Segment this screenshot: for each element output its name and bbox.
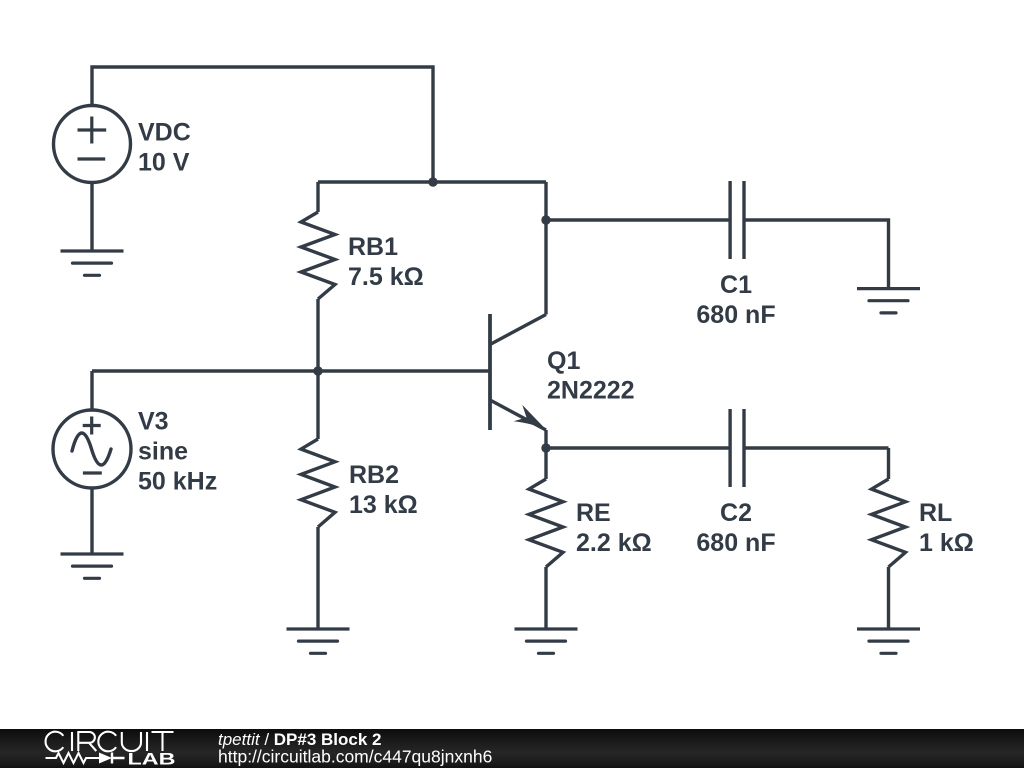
svg-text:V3: V3: [138, 408, 169, 436]
svg-text:RB2: RB2: [349, 461, 399, 489]
svg-text:VDC: VDC: [138, 119, 191, 147]
svg-text:680 nF: 680 nF: [696, 301, 775, 329]
svg-text:RE: RE: [576, 499, 611, 527]
svg-text:1 kΩ: 1 kΩ: [919, 529, 974, 557]
svg-text:2N2222: 2N2222: [547, 377, 635, 405]
svg-text:RL: RL: [919, 499, 952, 527]
svg-text:10 V: 10 V: [138, 149, 190, 177]
svg-text:LAB: LAB: [128, 750, 176, 768]
svg-text:2.2 kΩ: 2.2 kΩ: [576, 529, 652, 557]
svg-text:http://circuitlab.com/c447qu8j: http://circuitlab.com/c447qu8jnxnh6: [218, 747, 492, 767]
svg-text:RB1: RB1: [348, 233, 398, 261]
svg-text:13 kΩ: 13 kΩ: [349, 491, 418, 519]
svg-text:Q1: Q1: [547, 347, 580, 375]
svg-text:7.5 kΩ: 7.5 kΩ: [348, 263, 424, 291]
svg-text:C2: C2: [720, 499, 752, 527]
svg-text:680 nF: 680 nF: [696, 529, 775, 557]
svg-text:C1: C1: [720, 271, 752, 299]
svg-text:50 kHz: 50 kHz: [138, 468, 217, 496]
svg-text:sine: sine: [138, 438, 188, 466]
